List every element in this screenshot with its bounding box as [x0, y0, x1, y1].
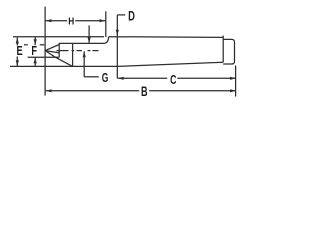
svg-text:D: D — [128, 9, 135, 24]
arrowhead F up — [34, 57, 37, 63]
svg-text:C: C — [170, 72, 177, 87]
arrowhead H left — [46, 19, 52, 22]
cone base vertical — [58, 43, 60, 57]
svg-text:F: F — [31, 44, 37, 58]
tang outline — [223, 39, 234, 64]
arrow shaft F top — [34, 37, 36, 45]
arrowhead E down — [16, 60, 19, 66]
extension dash F top right — [40, 44, 45, 46]
arrowhead C right — [230, 77, 236, 80]
arrowhead H right — [100, 19, 106, 22]
taper bottom edge — [117, 62, 223, 66]
svg-text:G: G — [102, 70, 109, 85]
arrowhead G up — [83, 51, 86, 57]
arrowhead B right — [230, 89, 236, 92]
shank top edge — [109, 36, 224, 39]
extension line H right — [105, 11, 107, 37]
cone middle edge — [45, 51, 59, 53]
leader D elbow — [117, 14, 125, 16]
svg-text:B: B — [141, 83, 148, 99]
arrow shaft pointer body top — [88, 25, 90, 43]
arrowhead body-top pointer down — [88, 37, 91, 43]
arrowhead D down — [116, 30, 119, 36]
leader G elbow — [83, 51, 85, 77]
svg-text:E: E — [17, 43, 24, 58]
dimension B line — [46, 90, 140, 92]
extension dash F top left — [24, 44, 28, 46]
extension line F bottom — [28, 56, 60, 58]
svg-text:H: H — [68, 16, 74, 28]
extension line tip vertical (H left / B left) — [44, 7, 46, 96]
cone upper edge — [45, 45, 59, 51]
arrowhead E up — [16, 38, 19, 44]
arrowhead F down — [34, 39, 37, 45]
arrow shaft E bottom — [16, 57, 18, 67]
dimension C line — [118, 77, 168, 79]
arrowhead B left — [46, 89, 52, 92]
body top edge — [59, 42, 104, 44]
cone lower 60deg edge — [45, 51, 72, 67]
centerline dash-dot — [57, 50, 69, 52]
body junction vertical — [72, 43, 74, 66]
gauge line vertical (D leader + taper big end + C extension) — [116, 15, 118, 78]
arrow shaft E top — [16, 38, 18, 46]
extension line right (B/C) — [235, 66, 237, 97]
arrow shaft F bottom — [34, 57, 36, 66]
dimension H line — [46, 20, 68, 22]
extension line top left (shank top level) — [13, 36, 104, 38]
extension line E bottom / body bottom edge — [10, 65, 117, 67]
fillet body-to-shank — [104, 37, 109, 44]
taper small end vertical — [222, 36, 224, 63]
arrowhead C left — [118, 77, 124, 80]
